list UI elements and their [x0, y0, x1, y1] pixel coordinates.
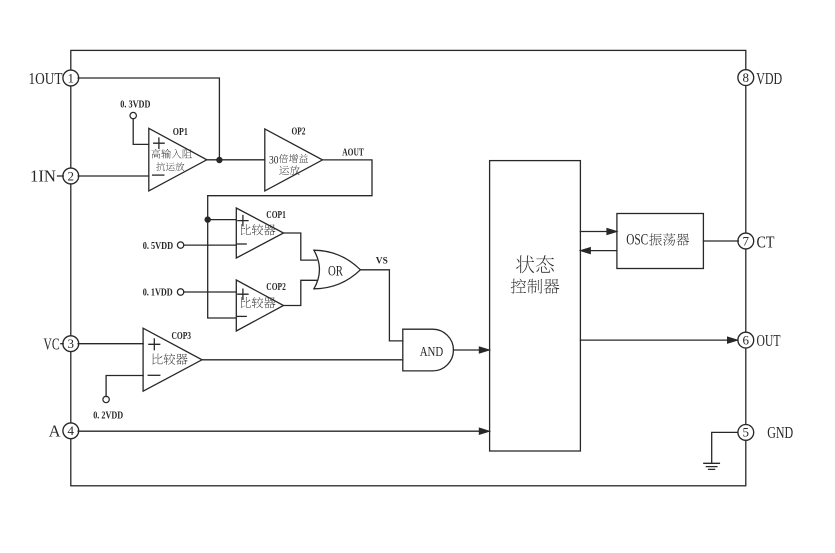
ground symbol: [704, 463, 720, 469]
svg-text:7: 7: [743, 233, 750, 248]
svg-text:OP1: OP1: [173, 127, 188, 138]
svg-text:OSC: OSC: [626, 232, 648, 249]
wire 0.5VDD to COP1 - input: [184, 244, 237, 246]
OR gate: [314, 250, 361, 289]
wire OR output (VS) to AND gate top input: [360, 270, 402, 341]
comparator COP3: [143, 328, 202, 391]
wire OSC to state controller (arrow left): [580, 250, 617, 252]
IC boundary box: [71, 50, 746, 485]
OSC oscillator block: [617, 214, 704, 269]
svg-text:0. 2VDD: 0. 2VDD: [93, 411, 123, 422]
svg-text:AND: AND: [420, 345, 444, 360]
wire pin 4 (A) to state controller: [78, 430, 490, 432]
svg-text:OR: OR: [328, 263, 343, 279]
svg-text:4: 4: [68, 423, 75, 438]
pin 7 (CT): [738, 233, 754, 249]
pin 5 (GND): [738, 425, 754, 441]
svg-text:GND: GND: [767, 423, 793, 442]
svg-text:VDD: VDD: [756, 69, 782, 88]
wire OSC to pin 7 (CT): [703, 240, 738, 242]
AND gate: [403, 329, 454, 371]
op-amp OP2: [265, 129, 323, 191]
wire junction to COP1 + input: [208, 219, 236, 221]
wire pin 5 to ground: [712, 432, 738, 463]
svg-text:0. 1VDD: 0. 1VDD: [143, 288, 173, 299]
wire pin 2 to OP1 - input: [78, 175, 149, 177]
junction node at OP1 output: [216, 157, 222, 163]
wire 0.1VDD to COP2 + input: [184, 291, 237, 293]
wire COP3 output to AND gate bottom input: [202, 359, 403, 361]
wire OP2 output (AOUT) down to comparator chain: [208, 160, 372, 318]
svg-text:5: 5: [743, 425, 750, 440]
svg-text:OUT: OUT: [757, 331, 781, 350]
wire 0.3VDD to OP1 + input: [133, 119, 149, 145]
wire 0.2VDD to COP3 - input: [106, 376, 143, 397]
wire AND output to state controller: [454, 349, 490, 351]
wire OP1 output to OP2 input: [207, 159, 265, 161]
wire feedback OP1 output to pin 1: [78, 78, 219, 160]
svg-text:AOUT: AOUT: [342, 148, 364, 159]
svg-text:0. 3VDD: 0. 3VDD: [120, 99, 150, 110]
pin 8 (VDD): [738, 70, 754, 86]
wire state controller to pin 6 (OUT): [580, 339, 737, 341]
state controller block: [490, 161, 581, 451]
svg-text:3: 3: [68, 336, 75, 351]
wire COP1 output to OR gate: [284, 233, 317, 260]
svg-text:OP2: OP2: [292, 126, 306, 137]
svg-text:CT: CT: [757, 232, 775, 251]
pin 6 (OUT): [738, 332, 754, 348]
svg-text:8: 8: [743, 70, 750, 85]
wire state controller to OSC (arrow right): [580, 231, 617, 233]
svg-text:VS: VS: [376, 256, 388, 266]
svg-text:0. 5VDD: 0. 5VDD: [143, 241, 174, 252]
svg-text:2: 2: [68, 168, 75, 183]
svg-text:COP1: COP1: [266, 210, 286, 221]
svg-text:1IN: 1IN: [30, 167, 56, 186]
wire COP2 output to OR gate: [284, 280, 317, 305]
pin 1 (1OUT): [63, 70, 79, 86]
pin 3 (VC): [63, 336, 79, 352]
svg-text:1: 1: [68, 70, 75, 85]
comparator COP2: [236, 280, 283, 331]
svg-text:COP2: COP2: [266, 282, 286, 293]
op-amp OP1: [149, 128, 207, 191]
junction node on comparator feed: [205, 216, 211, 222]
svg-text:30: 30: [269, 152, 279, 166]
pin 2 (1IN): [63, 168, 79, 184]
svg-text:VC: VC: [44, 334, 60, 353]
svg-text:COP3: COP3: [172, 331, 192, 342]
comparator COP1: [236, 208, 283, 258]
svg-text:6: 6: [743, 332, 750, 347]
svg-text:1OUT: 1OUT: [29, 69, 63, 88]
pin 4 (A): [63, 423, 79, 439]
wire pin 3 (VC) to COP3 + input: [78, 343, 143, 345]
svg-text:A: A: [49, 422, 61, 441]
